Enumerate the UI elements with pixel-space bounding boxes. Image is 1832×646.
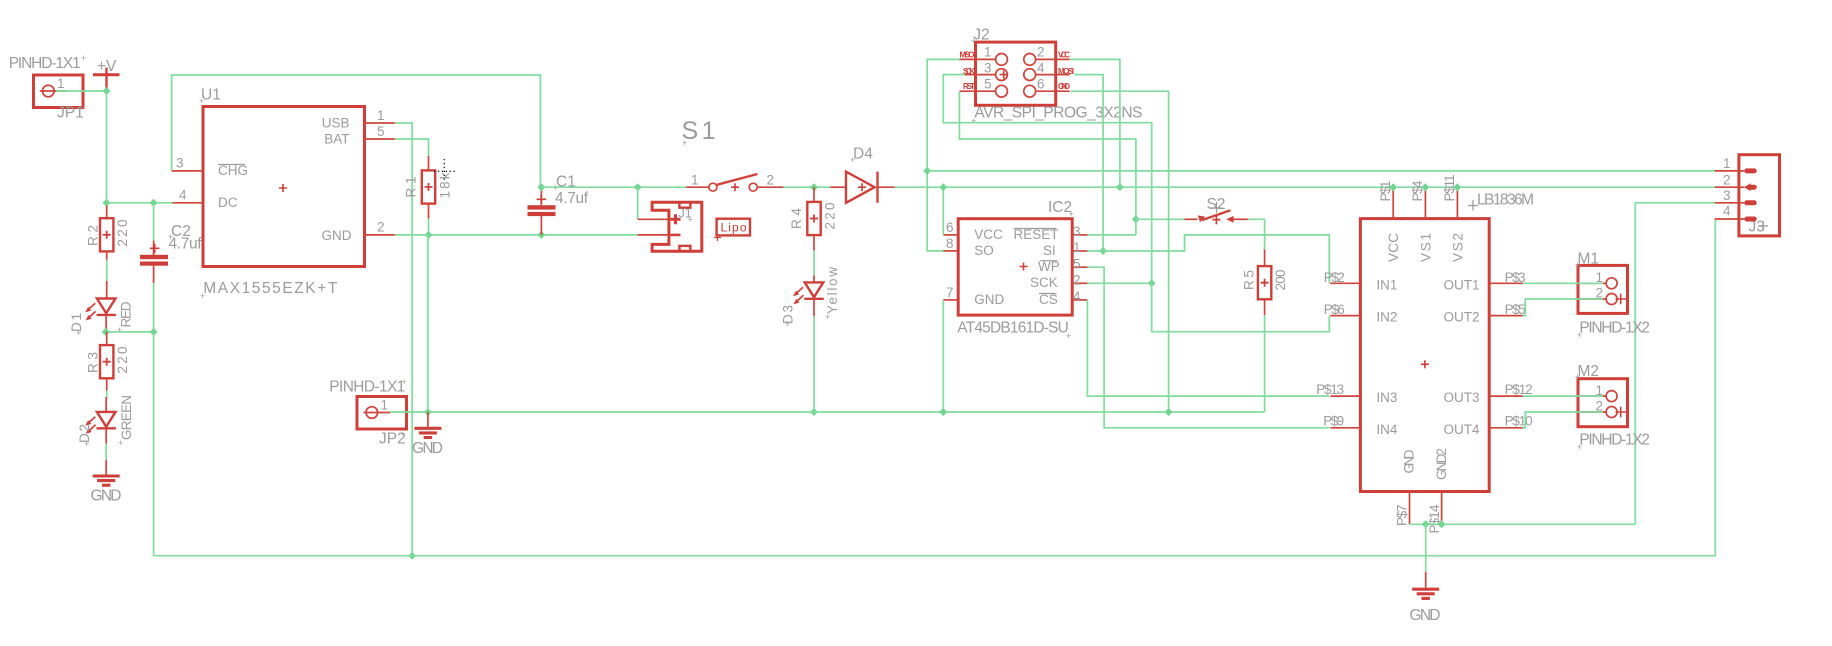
svg-text:3: 3 — [176, 156, 184, 171]
svg-text:GREEN: GREEN — [119, 395, 134, 440]
J2 pin 6 stub — [1036, 90, 1070, 92]
wire row187 C1 to switch S1 — [541, 186, 686, 188]
wire USB pin1 to bottom rail — [395, 123, 412, 556]
LED D3 — [793, 282, 824, 304]
svg-text:MISO: MISO — [960, 51, 975, 60]
svg-text:+: + — [1575, 260, 1580, 270]
Lipo tag box — [714, 219, 750, 241]
svg-text:200: 200 — [1273, 270, 1288, 291]
svg-text:P$3: P$3 — [1505, 270, 1526, 285]
svg-text:4: 4 — [1073, 289, 1081, 304]
IC2 pin 8 stub (SO) — [943, 250, 958, 252]
svg-text:GND: GND — [322, 228, 352, 243]
svg-text:R5: R5 — [1242, 270, 1257, 290]
svg-text:+: + — [81, 53, 86, 63]
J1 minus pin line — [638, 234, 669, 236]
wire gnd bus up to J3 pin3 — [1635, 203, 1714, 525]
svg-text:1: 1 — [377, 108, 385, 123]
junction GND symbol column — [424, 408, 432, 416]
svg-text:5: 5 — [1073, 256, 1081, 271]
LB pin P$5 stub (OUT2) — [1489, 315, 1523, 317]
svg-text:PINHD-1X2: PINHD-1X2 — [1579, 432, 1650, 449]
svg-text:PINHD-1X1: PINHD-1X1 — [329, 379, 405, 396]
wire RESET stub to RST column — [1087, 234, 1136, 236]
junction D3 column GND rail — [810, 408, 818, 416]
svg-text:M2: M2 — [1578, 363, 1600, 380]
svg-text:MAX1555EZK+T: MAX1555EZK+T — [203, 280, 338, 297]
svg-text:1: 1 — [381, 398, 389, 413]
D2 bottom lead — [105, 429, 107, 444]
svg-text:1: 1 — [984, 45, 992, 60]
ground symbol (JP2) — [427, 412, 429, 427]
svg-text:PINHD-1X2: PINHD-1X2 — [1579, 320, 1650, 337]
svg-text:2: 2 — [1723, 172, 1731, 187]
J2 pin 2 stub — [1036, 58, 1070, 60]
connector M2 — [1578, 379, 1628, 427]
svg-text:2: 2 — [1073, 272, 1081, 287]
junction RESET/S2 — [1132, 215, 1140, 223]
svg-text:SO: SO — [974, 243, 994, 258]
wire BAT pin5 to R1 — [395, 139, 429, 158]
svg-text:OUT3: OUT3 — [1444, 390, 1480, 405]
wire LB bottom gnd bus — [1410, 523, 1636, 525]
connector J3 box — [1739, 155, 1780, 236]
svg-text:P$9: P$9 — [1323, 414, 1344, 429]
D1 bottom lead — [105, 316, 107, 332]
LB pin P$7 bottom stub — [1409, 492, 1411, 525]
J3 pin 3 stub — [1715, 202, 1745, 204]
U1 pin 2 stub (GND) — [365, 234, 395, 236]
svg-text:P$4: P$4 — [1410, 180, 1425, 201]
LB pin P$2 stub (IN1) — [1330, 282, 1360, 284]
junction VCC row187 — [1116, 183, 1124, 191]
svg-text:2: 2 — [1037, 45, 1045, 60]
R1 leads — [428, 156, 430, 170]
LB pin P$3 stub (OUT1) — [1489, 282, 1523, 284]
IC2 pin 7 stub (GND) — [943, 299, 958, 301]
svg-text:R4: R4 — [789, 208, 804, 229]
IC2 pin 1 stub (SI) — [1072, 250, 1087, 252]
svg-text:GND: GND — [1401, 449, 1416, 473]
svg-text:DC: DC — [218, 195, 238, 210]
wire top rail CHG to C1 — [172, 75, 541, 187]
svg-text:P$1: P$1 — [1378, 181, 1393, 202]
svg-text:+: + — [1069, 209, 1074, 219]
svg-text:OUT2: OUT2 — [1444, 310, 1480, 325]
junction VCC riser row187 — [939, 183, 947, 191]
svg-text:8: 8 — [946, 236, 954, 251]
IC2 pin 5 stub (WP) — [1072, 266, 1087, 268]
resistor R1 — [422, 170, 435, 203]
J3 pin 4 stub — [1715, 218, 1745, 220]
svg-text:+: + — [785, 319, 790, 329]
svg-text:4.7uf: 4.7uf — [169, 236, 203, 253]
IC U1 box — [203, 107, 365, 267]
LED D2 — [85, 412, 116, 434]
svg-text:RED: RED — [119, 301, 134, 327]
connector JP1 — [34, 75, 84, 108]
wire SCK: J2 pin3 to IC2 SCK — [943, 75, 1151, 284]
svg-text:+: + — [118, 438, 123, 448]
svg-text:AVR_SPI_PROG_3X2NS: AVR_SPI_PROG_3X2NS — [974, 105, 1142, 122]
junction DC row at C2 column — [150, 199, 158, 207]
svg-text:+: + — [200, 291, 205, 301]
svg-text:7: 7 — [946, 285, 954, 300]
svg-text:P$14: P$14 — [1427, 504, 1442, 533]
resistor R2 — [100, 218, 113, 251]
svg-text:P$10: P$10 — [1505, 414, 1533, 429]
cursor crosshair — [434, 159, 456, 182]
svg-text:4: 4 — [179, 188, 187, 203]
svg-text:+: + — [1577, 330, 1582, 340]
svg-text:4: 4 — [1037, 60, 1045, 75]
svg-text:4: 4 — [1723, 204, 1731, 219]
J2 pin 4 stub — [1036, 74, 1070, 76]
svg-text:+: + — [1575, 372, 1580, 382]
junction DC row at R2 column — [103, 199, 111, 207]
wire OUT1 to M1 pin1 — [1523, 282, 1603, 284]
svg-text:+: + — [682, 138, 687, 148]
wire R3 to D2 — [106, 391, 108, 400]
wire VCC riser to IC2 pin6 — [942, 187, 944, 235]
wire OUT4 to M2 pin2 — [1523, 412, 1603, 428]
resistor R5 — [1258, 266, 1271, 299]
svg-text:+: + — [1066, 331, 1071, 341]
IC2 pin 4 stub (CS) — [1072, 299, 1087, 301]
wire MISO: J2 pin1 to IC2 SO — [927, 59, 959, 251]
LED D1 — [85, 299, 116, 321]
M1 pin 1 — [1578, 282, 1606, 284]
R3 leads — [106, 332, 108, 345]
svg-text:1: 1 — [1723, 156, 1731, 171]
svg-text:5: 5 — [377, 124, 385, 139]
wire SCK down to IN2 — [1152, 283, 1330, 331]
IC LB1836M box — [1360, 219, 1489, 492]
wire down to GND symbol (bottom) — [1425, 524, 1427, 572]
ground symbol (bottom right) — [1412, 589, 1439, 598]
svg-text:220: 220 — [115, 347, 130, 374]
svg-text:6: 6 — [946, 220, 954, 235]
svg-text:3: 3 — [1723, 188, 1731, 203]
junction at JP1/+V — [103, 87, 111, 95]
svg-text:+: + — [76, 328, 81, 338]
junction C2 column row332 — [150, 328, 158, 336]
resistor R4 — [807, 202, 820, 235]
svg-text:220: 220 — [823, 203, 838, 230]
wire GND: J2 pin6 down to GND rail — [1071, 91, 1169, 412]
svg-text:R2: R2 — [86, 225, 101, 246]
wire D2 to GND — [105, 444, 107, 460]
svg-text:+: + — [688, 215, 693, 225]
wire S2 row from RESET junction — [1136, 218, 1185, 220]
svg-text:IN1: IN1 — [1376, 277, 1397, 292]
svg-text:1: 1 — [57, 76, 65, 91]
junction MISO row171 — [923, 167, 931, 175]
connector M1 — [1578, 265, 1628, 313]
svg-text:+: + — [79, 103, 84, 113]
svg-text:VS1: VS1 — [1418, 233, 1433, 262]
wire down to J1 plus pin — [637, 187, 639, 219]
junction IC2 GND rail — [939, 408, 947, 416]
svg-text:RST: RST — [963, 82, 975, 91]
bottom rail USB net — [154, 219, 1716, 556]
wire OUT2 to M1 pin2 — [1523, 299, 1603, 316]
capacitor C1 — [528, 187, 556, 235]
U1 pin 4 stub (DC) — [173, 202, 204, 204]
connector J2 box — [976, 42, 1056, 105]
wire GND row (U1 pin2 eastwards) — [395, 234, 638, 236]
svg-text:+: + — [971, 36, 976, 46]
switch S2 — [1185, 210, 1248, 224]
svg-text:MOSI: MOSI — [1058, 67, 1074, 76]
junction J2-GND rail — [1165, 408, 1173, 416]
svg-text:SI: SI — [1043, 243, 1056, 258]
wire R1 bottom to GND row — [428, 219, 430, 235]
LB pin P$11 (VS2) top stub — [1456, 187, 1458, 218]
svg-text:SCK: SCK — [1030, 275, 1058, 290]
LB pin P$4 (VS1) top stub — [1424, 187, 1426, 218]
power +V symbol — [93, 68, 120, 92]
switch S1 — [686, 174, 783, 191]
wire C2 bottom to LED junction row — [153, 283, 155, 332]
wire S2 to R5 — [1248, 219, 1265, 251]
svg-text:+: + — [402, 377, 407, 387]
J2 pin circles — [996, 54, 1036, 98]
LB1836M origin cross — [1421, 360, 1429, 368]
svg-text:USB: USB — [322, 116, 350, 131]
wire OUT3 to M2 pin1 — [1523, 395, 1603, 397]
svg-text:+: + — [825, 312, 830, 322]
svg-text:+: + — [850, 155, 855, 165]
svg-text:R3: R3 — [86, 352, 101, 373]
M1 pin 2 — [1578, 298, 1606, 300]
junction MOSI/SI — [1099, 247, 1107, 255]
svg-text:VS2: VS2 — [1450, 233, 1465, 262]
svg-text:LB1836M: LB1836M — [1477, 192, 1534, 209]
svg-text:GND2: GND2 — [1434, 448, 1449, 480]
battery connector J1 — [652, 202, 702, 251]
J2 pin 5 stub — [959, 90, 995, 92]
svg-text:2: 2 — [377, 220, 385, 235]
svg-text:P$5: P$5 — [1505, 302, 1526, 317]
wire CS down to IN3 — [1087, 300, 1329, 396]
J2 pin 1 stub — [959, 58, 995, 60]
wire C2 column down to bottom rail — [153, 332, 155, 556]
junction R4 column row187 — [810, 183, 818, 191]
svg-text:+V: +V — [97, 58, 117, 75]
svg-text:P$12: P$12 — [1505, 382, 1533, 397]
connector JP2 — [357, 397, 407, 430]
wire WP down to IN4 — [1087, 267, 1329, 428]
wire RST: J2 pin5 down and to RESET column — [959, 91, 1136, 235]
svg-text:2: 2 — [767, 173, 775, 188]
svg-text:Lipo: Lipo — [721, 221, 747, 235]
svg-text:3: 3 — [984, 60, 992, 75]
svg-text:+: + — [1577, 442, 1582, 452]
wire SI row to IN1 — [1087, 235, 1329, 283]
LB pin P$9 stub (IN4) — [1330, 427, 1360, 429]
svg-text:P$6: P$6 — [1324, 302, 1345, 317]
J3 pin 1 stub — [1715, 170, 1745, 172]
ground symbol (left) — [93, 476, 120, 485]
svg-text:VCC: VCC — [974, 227, 1003, 242]
LB pin P$13 stub (IN3) — [1330, 395, 1360, 397]
R4 leads — [813, 187, 815, 202]
IC IC2 box — [958, 219, 1072, 315]
svg-text:D4: D4 — [853, 146, 873, 163]
U1 origin cross — [279, 184, 287, 192]
M2 pin 1 — [1578, 395, 1606, 397]
svg-text:5: 5 — [984, 77, 992, 92]
svg-text:BAT: BAT — [324, 132, 349, 147]
junction C1 column GND row — [537, 231, 545, 239]
svg-text:IN3: IN3 — [1376, 390, 1397, 405]
svg-text:1: 1 — [1073, 240, 1081, 255]
svg-text:VCC: VCC — [1386, 233, 1401, 262]
svg-text:+: + — [199, 96, 204, 106]
wire row171 to J3 pin1 — [927, 170, 1714, 172]
svg-text:AT45DB161D-SU: AT45DB161D-SU — [957, 320, 1069, 337]
resistor R3 — [100, 345, 113, 378]
junction R1 column GND row — [425, 231, 433, 239]
J2 pin 3 stub — [959, 74, 995, 76]
junction J1 branch row187 — [634, 183, 642, 191]
svg-text:3: 3 — [1073, 224, 1081, 239]
svg-text:M1: M1 — [1578, 250, 1600, 267]
wire MOSI: J2 pin4 down to SI row — [1074, 75, 1103, 251]
junction C1 top row187 — [537, 183, 545, 191]
wire DC row — [107, 202, 173, 204]
U1 pin 1 stub (USB) — [365, 122, 395, 124]
LB pin P$14 bottom stub — [1441, 492, 1443, 525]
junction USB column on bottom rail — [408, 552, 416, 560]
svg-text:PINHD-1X1: PINHD-1X1 — [9, 55, 81, 72]
diode D4 — [830, 172, 894, 203]
LB pin P$12 stub (OUT3) — [1489, 395, 1523, 397]
wire D3 to GND rail — [813, 316, 815, 412]
J2 origin cross — [1000, 70, 1009, 78]
svg-text:IN4: IN4 — [1376, 422, 1398, 437]
wire R5 bottom to GND rail — [1264, 315, 1266, 412]
svg-text:OUT4: OUT4 — [1444, 422, 1480, 437]
IC2 origin cross — [1020, 263, 1028, 271]
svg-text:GND: GND — [1410, 607, 1441, 624]
svg-text:+: + — [971, 116, 976, 126]
svg-text:+: + — [84, 439, 89, 449]
svg-text:Yellow: Yellow — [825, 267, 840, 314]
D3 bottom lead — [813, 299, 815, 316]
svg-text:VCC: VCC — [1058, 51, 1070, 60]
IC2 pin 3 stub (RESET) — [1072, 234, 1087, 236]
wire D4 east along row187 to J3 pin2 — [895, 186, 1715, 188]
svg-text:P$7: P$7 — [1395, 505, 1410, 527]
wire R4 to D3 — [813, 251, 815, 278]
R2 leads — [106, 206, 108, 219]
wire junction row D1/R3 — [106, 331, 154, 333]
LB pin P$6 stub (IN2) — [1330, 315, 1360, 317]
wire SCK stub to junction — [1087, 282, 1151, 284]
svg-text:GND: GND — [412, 440, 443, 457]
LB pin P$1 (VCC) top stub — [1392, 187, 1394, 218]
U1 pin 3 stub (CHG) — [172, 170, 203, 172]
svg-text:220: 220 — [115, 220, 130, 247]
M2 pin 2 — [1578, 411, 1606, 413]
J3 pin 2 stub — [1715, 186, 1745, 188]
wire IC2 GND to rail — [942, 300, 944, 412]
svg-text:IN2: IN2 — [1376, 310, 1397, 325]
wire GND rail up to U1 GND row — [427, 235, 429, 412]
LB pin P$10 stub (OUT4) — [1489, 427, 1523, 429]
wire R2 to D1 — [106, 260, 108, 284]
svg-text:R1: R1 — [404, 177, 419, 198]
svg-text:4.7uf: 4.7uf — [555, 190, 589, 207]
svg-text:GND: GND — [91, 488, 122, 505]
wire C2 top — [153, 203, 155, 241]
svg-text:OUT1: OUT1 — [1444, 277, 1480, 292]
svg-text:+: + — [401, 429, 406, 439]
IC2 pin 6 stub (VCC) — [943, 234, 958, 236]
R5 leads — [1264, 250, 1266, 267]
wire S1 to D4 — [783, 186, 830, 188]
svg-text:P$11: P$11 — [1442, 175, 1457, 202]
wire +V down to DC row — [106, 91, 108, 203]
junction D1/R3 — [102, 328, 110, 336]
wire GND rail from JP2 east — [390, 411, 1265, 413]
svg-text:P$2: P$2 — [1324, 270, 1345, 285]
IC2 pin 2 stub (SCK) — [1072, 282, 1087, 284]
J1 plus pin line — [638, 218, 669, 220]
svg-text:+: + — [117, 325, 122, 335]
svg-text:6: 6 — [1037, 77, 1045, 92]
svg-text:GND: GND — [974, 292, 1004, 307]
svg-text:P$13: P$13 — [1316, 382, 1344, 397]
capacitor C2 — [140, 241, 168, 284]
wire JP1 to +V node — [56, 90, 107, 92]
wire VCC: J2 pin2 to row187 — [1070, 59, 1120, 187]
svg-text:1: 1 — [691, 173, 699, 188]
U1 pin 5 stub (BAT) — [365, 138, 395, 140]
svg-text:18k: 18k — [438, 172, 453, 198]
svg-text:GND: GND — [1058, 82, 1070, 91]
junction SCK — [1148, 279, 1156, 287]
